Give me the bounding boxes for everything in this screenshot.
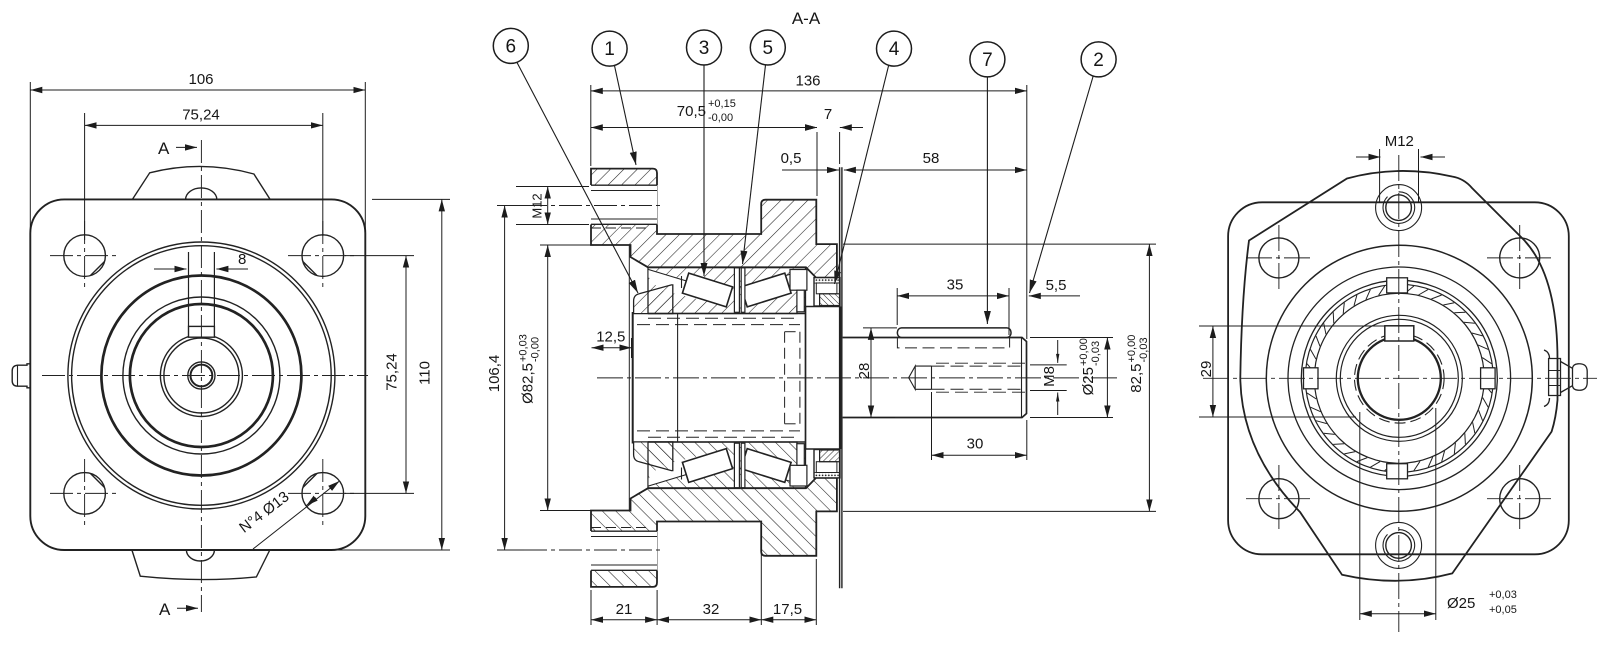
right view dimensions xyxy=(1199,149,1445,620)
middle view texts xyxy=(486,9,1150,618)
dim M12 top xyxy=(1379,149,1381,203)
svg-text:136: 136 xyxy=(795,73,820,90)
middle view dimensions xyxy=(497,85,1156,625)
cage bar left xyxy=(681,276,683,288)
dim 75,24 vertical xyxy=(345,255,414,257)
recess floor edge xyxy=(628,245,630,378)
svg-text:M8: M8 xyxy=(1041,366,1058,387)
dim M8 xyxy=(1030,364,1067,366)
bottom tab boss xyxy=(132,550,270,580)
svg-text:5,5: 5,5 xyxy=(1046,277,1067,294)
bearing roller left xyxy=(682,273,732,307)
bottom M12 hole xyxy=(1386,533,1412,559)
svg-text:-0,03: -0,03 xyxy=(1138,337,1150,362)
svg-text:+0,15: +0,15 xyxy=(708,98,736,110)
svg-text:7: 7 xyxy=(824,106,832,123)
dim 30 xyxy=(931,392,933,460)
shaft xyxy=(843,328,1027,418)
svg-text:32: 32 xyxy=(703,601,720,618)
svg-text:A: A xyxy=(158,139,170,158)
bolt hole TL xyxy=(64,235,106,277)
dim 58 xyxy=(844,169,1027,171)
top M12 hole xyxy=(1386,195,1412,221)
dim 5,5 xyxy=(1029,295,1080,297)
thick circle hub journal xyxy=(130,304,273,447)
svg-text:M12: M12 xyxy=(1385,133,1414,150)
dims 21 32 17,5 xyxy=(590,590,592,625)
dim 136 xyxy=(590,85,592,166)
dim 106 xyxy=(29,82,31,232)
bottom M12 boss circle xyxy=(1376,522,1422,568)
svg-text:58: 58 xyxy=(923,150,940,167)
top tab boss behind flange xyxy=(132,166,270,199)
dim O82,5 left xyxy=(540,244,594,246)
cone front rib right xyxy=(790,270,807,291)
M12 tapped hole in flange tab xyxy=(590,185,658,225)
svg-text:12,5: 12,5 xyxy=(596,329,625,346)
right view centerlines xyxy=(1203,155,1597,632)
svg-text:6: 6 xyxy=(506,37,517,58)
svg-text:75,24: 75,24 xyxy=(384,353,401,391)
dim 70,5 xyxy=(591,127,817,129)
radial seal upper xyxy=(814,278,840,306)
svg-text:+0,03: +0,03 xyxy=(1489,589,1517,601)
retaining cover plate xyxy=(839,167,841,378)
svg-text:35: 35 xyxy=(947,277,964,294)
square flange plate outline xyxy=(30,199,365,550)
cup race face left xyxy=(649,270,704,299)
shaft keyway in right view xyxy=(1385,326,1414,341)
svg-text:0,5: 0,5 xyxy=(781,150,802,167)
rear square flange xyxy=(1228,202,1569,554)
housing flanged body section upper half xyxy=(591,169,837,278)
dim O25 bottom xyxy=(1359,412,1361,620)
M8 tapped centre hole xyxy=(909,366,916,389)
svg-text:3: 3 xyxy=(699,38,710,59)
dim 75,24 horizontal xyxy=(84,113,86,240)
svg-text:+0,00: +0,00 xyxy=(1078,338,1090,366)
svg-text:-0,03: -0,03 xyxy=(1090,341,1102,366)
top M12 boss circle xyxy=(1376,185,1422,231)
hub sleeve outline xyxy=(632,312,634,378)
spacer ring ribs xyxy=(734,268,739,313)
grease fitting right side xyxy=(1544,350,1587,407)
balloons and leaders xyxy=(493,28,1116,324)
svg-text:A: A xyxy=(159,600,171,619)
shaft centerline xyxy=(597,377,1117,379)
dim 8 keyway xyxy=(154,268,187,270)
dim 106,4 xyxy=(497,549,524,551)
svg-text:A-A: A-A xyxy=(792,9,821,28)
grease nipple (left edge) xyxy=(12,364,30,388)
svg-text:70,5: 70,5 xyxy=(677,103,706,120)
section arrow A top xyxy=(176,146,197,148)
svg-text:82,5: 82,5 xyxy=(1128,364,1145,393)
key (item 7) xyxy=(897,328,1011,338)
dim 0,5 xyxy=(782,169,839,171)
cup race face right xyxy=(752,270,806,299)
bolt hole BL xyxy=(64,473,106,515)
svg-text:4: 4 xyxy=(889,39,900,60)
dim 7 xyxy=(839,132,841,164)
hidden keyway on shaft xyxy=(897,338,1009,348)
svg-text:Ø25: Ø25 xyxy=(1447,595,1475,612)
hub circle pair xyxy=(160,335,242,417)
dim 28 xyxy=(863,327,897,329)
svg-text:28: 28 xyxy=(856,363,873,380)
bolt hole BR xyxy=(302,473,344,515)
bottom M12 hole semicircle xyxy=(186,550,214,561)
svg-text:-0,00: -0,00 xyxy=(530,337,542,362)
svg-text:1: 1 xyxy=(604,39,615,60)
concentric circles xyxy=(1266,245,1532,511)
svg-text:7: 7 xyxy=(982,50,993,71)
svg-text:+0,03: +0,03 xyxy=(518,334,530,362)
bolt hole TR xyxy=(302,235,344,277)
circle r78.5 xyxy=(123,297,280,454)
serration ticks xyxy=(1306,285,1493,472)
svg-text:Ø25: Ø25 xyxy=(1080,367,1097,395)
left view centerlines xyxy=(42,140,368,612)
dim 110 xyxy=(372,198,450,200)
corner bolt holes xyxy=(1259,238,1299,278)
dim 12,5 xyxy=(631,338,633,358)
svg-text:+0,00: +0,00 xyxy=(1126,335,1138,363)
hidden keyway in hub bore xyxy=(785,331,800,333)
svg-text:29: 29 xyxy=(1198,361,1215,378)
left view dimensions xyxy=(30,82,450,608)
svg-text:-0,00: -0,00 xyxy=(708,112,733,124)
dim 35 xyxy=(896,288,898,325)
keyway slot lines xyxy=(188,252,190,326)
dim O25 xyxy=(1030,337,1113,339)
hub spline hidden lines xyxy=(648,317,800,319)
svg-text:30: 30 xyxy=(967,436,984,453)
svg-text:Ø82,5: Ø82,5 xyxy=(520,363,537,404)
locking ring tabs xyxy=(1304,278,1496,479)
top M12 hole semicircle xyxy=(186,188,217,200)
bearing roller right xyxy=(741,273,791,307)
svg-text:M12: M12 xyxy=(530,193,545,218)
svg-text:5: 5 xyxy=(763,38,774,59)
dim 82,5 right xyxy=(843,243,1156,245)
svg-text:+0,05: +0,05 xyxy=(1489,604,1517,616)
dim 29 xyxy=(1199,325,1384,327)
center hole xyxy=(188,362,215,389)
bearing zone hatched band xyxy=(648,267,806,313)
section arrow A bottom xyxy=(177,607,198,609)
keyway rect xyxy=(189,326,215,337)
svg-text:2: 2 xyxy=(1093,50,1104,71)
leader N4 D13 xyxy=(253,481,340,549)
svg-text:17,5: 17,5 xyxy=(773,601,802,618)
hub coupling flange section xyxy=(634,285,673,314)
svg-text:106,4: 106,4 xyxy=(486,355,503,393)
svg-text:21: 21 xyxy=(616,601,633,618)
outer circle pair xyxy=(68,242,335,509)
svg-text:110: 110 xyxy=(417,361,434,385)
svg-text:106: 106 xyxy=(188,71,213,88)
svg-text:8: 8 xyxy=(238,251,246,268)
bore line xyxy=(648,266,806,268)
housing octagonal outline xyxy=(1240,171,1557,581)
dim M12 xyxy=(516,186,589,188)
thick circle seal bore xyxy=(101,276,301,476)
svg-text:75,24: 75,24 xyxy=(182,107,220,124)
